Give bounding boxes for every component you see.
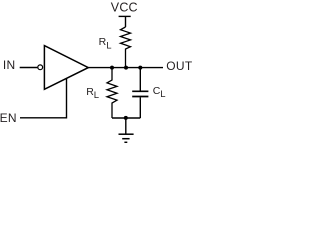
svg-text:IN: IN bbox=[3, 58, 16, 72]
svg-text:EN: EN bbox=[0, 111, 17, 125]
svg-text:VCC: VCC bbox=[111, 0, 138, 14]
svg-text:OUT: OUT bbox=[166, 59, 193, 73]
